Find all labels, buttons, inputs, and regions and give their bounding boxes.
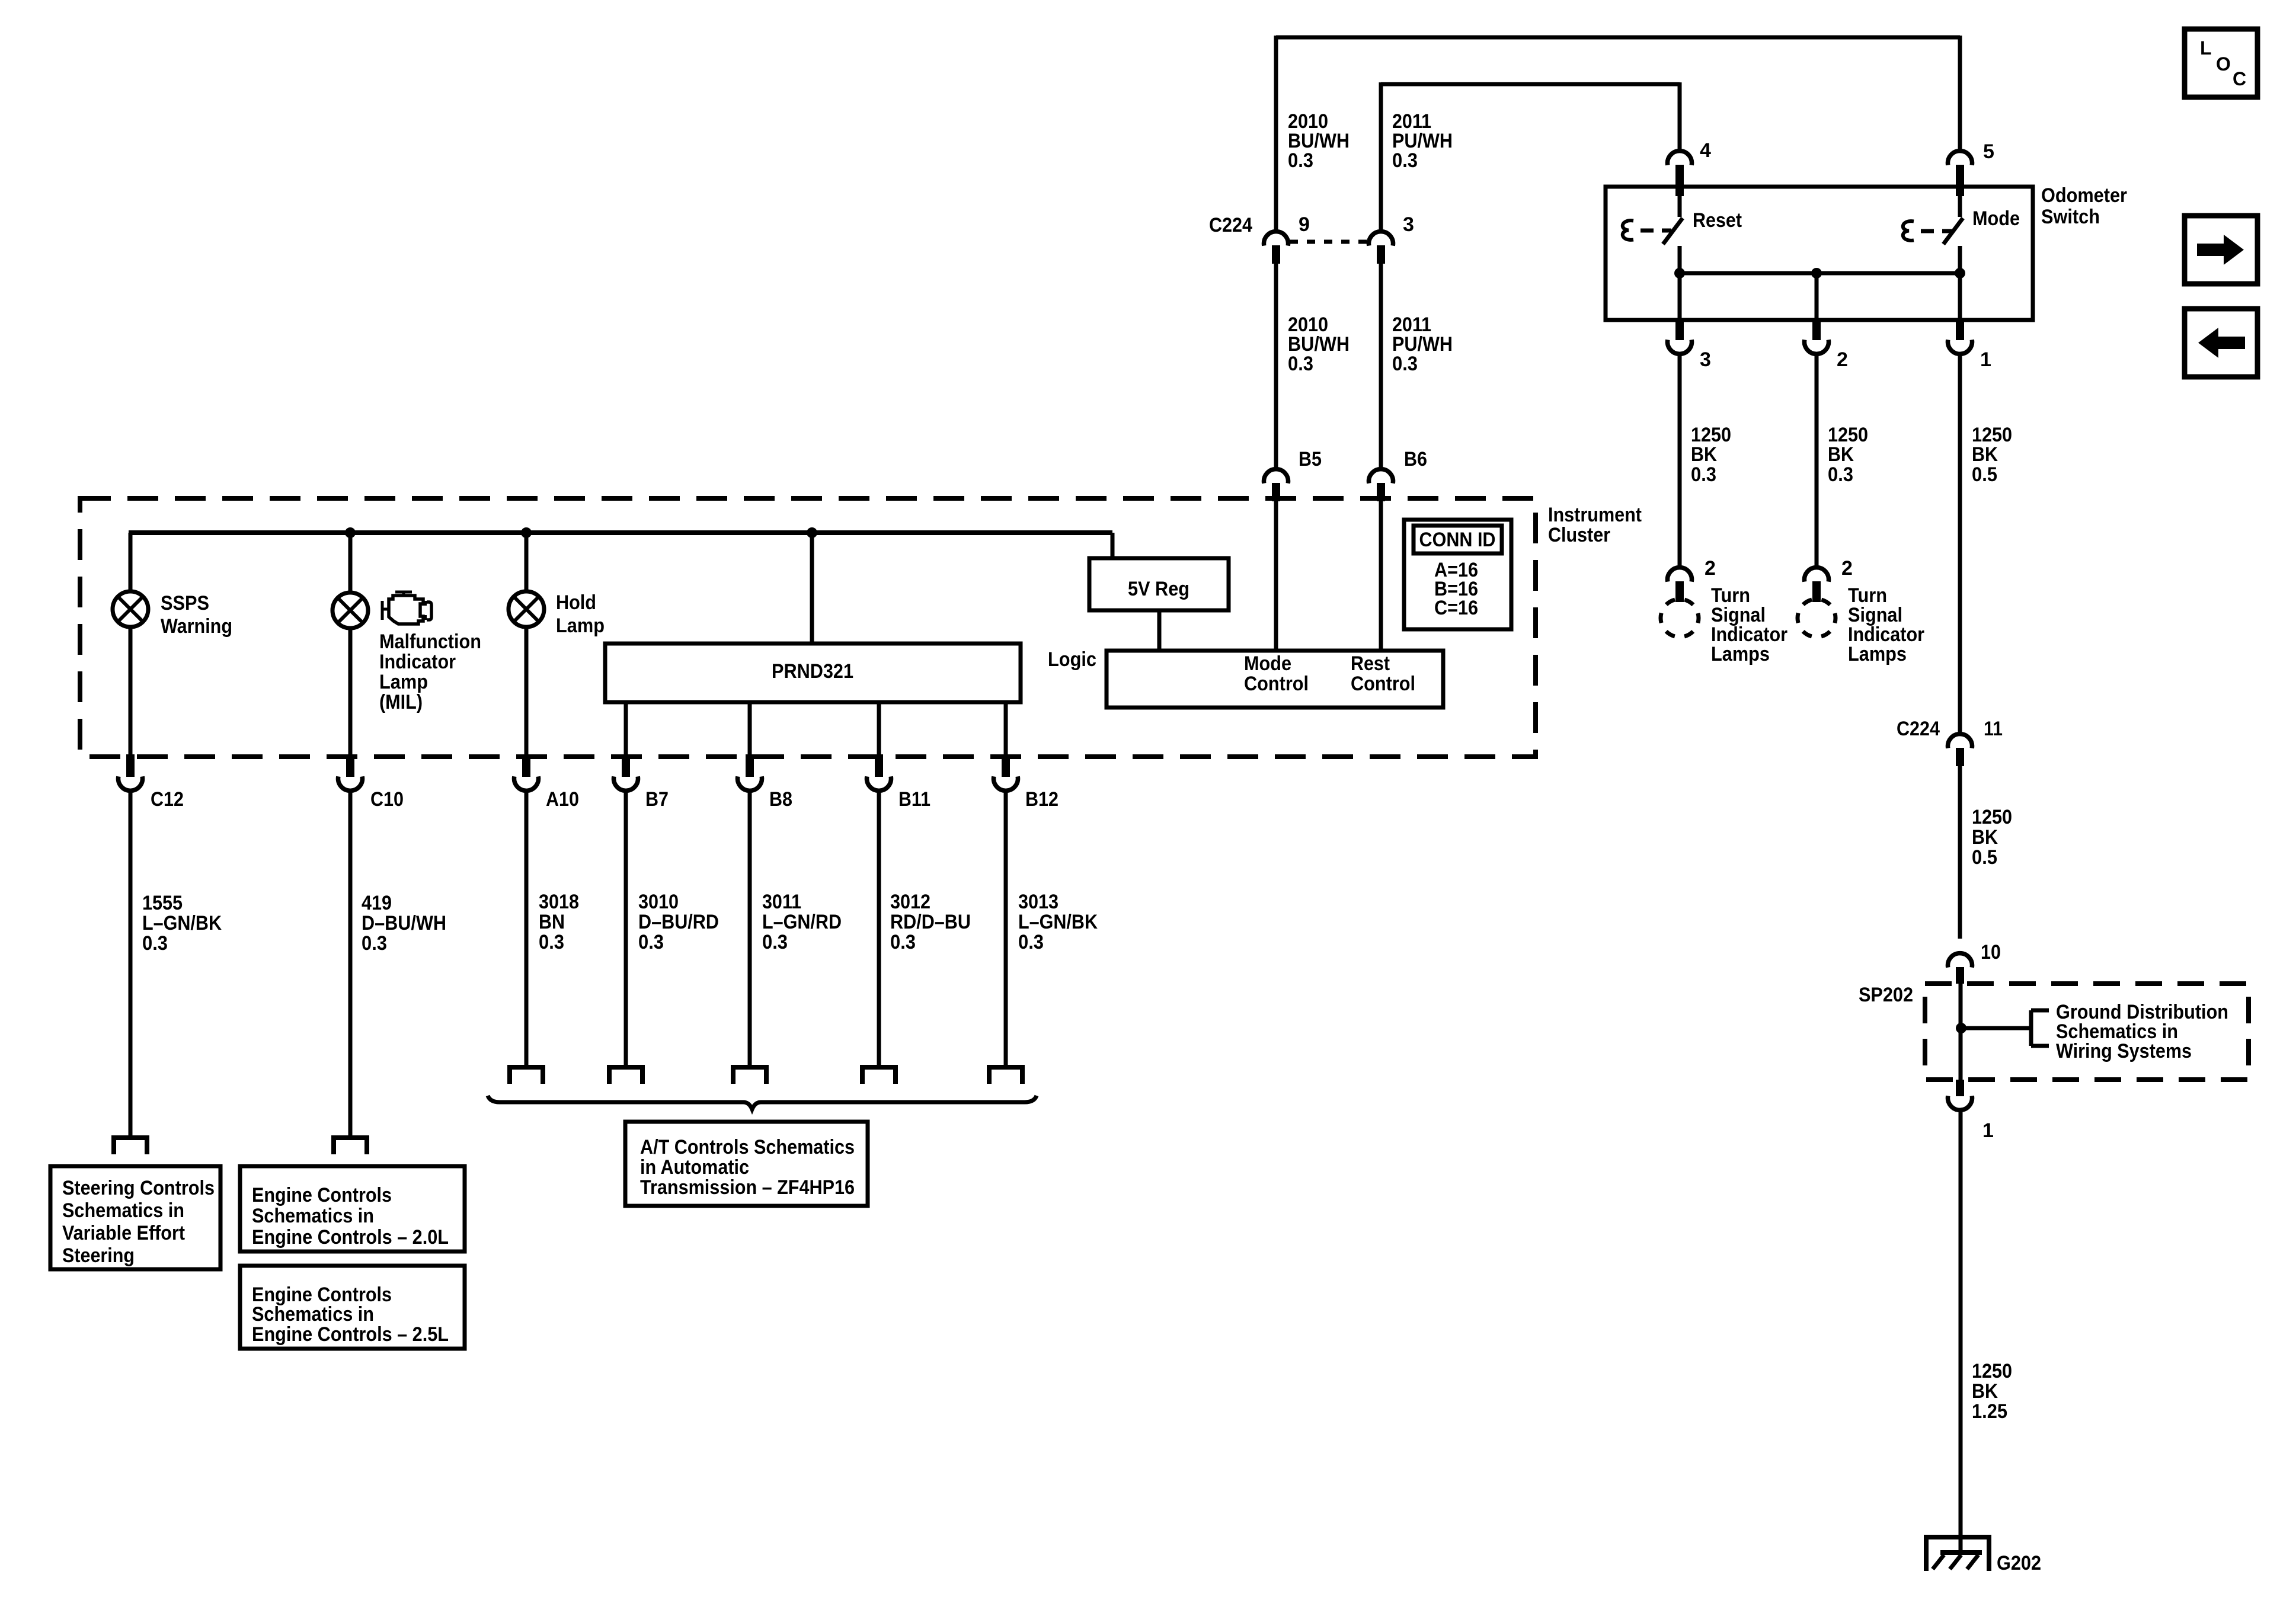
svg-text:Switch: Switch [2041,206,2100,228]
svg-text:SSPS: SSPS [161,592,209,614]
check engine icon [382,592,431,624]
label 3018 BN 0.3 [539,891,579,953]
wire 1250 BK 0.3 (middle) [1815,356,1819,566]
svg-text:0.3: 0.3 [638,931,664,953]
svg-text:Wiring Systems: Wiring Systems [2056,1040,2192,1062]
svg-text:BK: BK [1972,1380,1998,1403]
odometer pin 5 connector [1948,140,1994,196]
wire 2010 BU/WH top run [1276,36,1960,231]
label 419 D-BU/WH 0.3 [362,892,446,955]
svg-text:2: 2 [1841,557,1853,580]
svg-text:Reset: Reset [1693,209,1742,232]
odometer switch box [1606,187,2033,320]
svg-text:0.3: 0.3 [1288,149,1313,172]
svg-text:Schematics in: Schematics in [252,1303,374,1326]
connector C224 pin 3 [1369,213,1414,264]
SSPS warning lamp [113,591,148,627]
wire 3018 BN [525,792,529,1065]
CONN ID table box [1404,520,1511,629]
svg-text:D–BU/RD: D–BU/RD [638,911,719,933]
svg-text:Schematics in: Schematics in [252,1205,374,1227]
svg-text:Variable Effort: Variable Effort [62,1222,185,1244]
A/T controls schematic box [625,1122,868,1206]
svg-text:L: L [2200,37,2212,59]
label 3011 L-GN/RD 0.3 [762,891,842,953]
terminal B8 wire end [731,1067,769,1084]
wire to odometer pin 4 [1678,82,1682,151]
junction dot bus PRND [807,527,817,538]
svg-text:0.3: 0.3 [142,932,168,955]
next-page arrow icon [2185,216,2257,284]
cluster pin C10 connector [338,754,404,811]
svg-text:2: 2 [1837,348,1848,371]
CONN ID title [1419,529,1496,551]
mode switch contacts [1958,187,1962,320]
cluster pin A10 connector [514,754,579,811]
odometer pin 1 connector [1948,320,1991,371]
junction dot SP202 [1956,1023,1966,1033]
reset switch blade [1663,218,1683,244]
svg-text:SP202: SP202 [1859,984,1913,1006]
instrument cluster label [1548,504,1642,546]
terminal A10 wire end [507,1067,545,1084]
svg-text:RD/D–BU: RD/D–BU [890,911,971,933]
PRND321 label [772,660,853,683]
instrument cluster dashed box [80,498,1536,757]
mode switch blade [1943,218,1963,244]
cluster supply bus wire [129,533,1112,558]
wire 419 D-BU/WH [348,792,353,1136]
svg-text:Logic: Logic [1048,648,1096,671]
svg-text:Transmission – ZF4HP16: Transmission – ZF4HP16 [640,1176,855,1199]
svg-text:C10: C10 [370,788,404,811]
logic label [1048,648,1096,671]
svg-text:A10: A10 [546,788,579,811]
malfunction indicator lamp [332,593,368,628]
cluster pin B11 connector [867,754,931,811]
svg-text:10: 10 [1981,941,2001,964]
svg-text:1250: 1250 [1972,1360,2012,1382]
svg-text:3011: 3011 [762,891,801,913]
svg-text:Lamps: Lamps [1848,643,1907,665]
svg-text:5V Reg: 5V Reg [1128,578,1189,600]
svg-text:Engine Controls – 2.5L: Engine Controls – 2.5L [252,1323,449,1346]
engine controls 2.0L schematic box [240,1166,465,1251]
CONN ID values [1434,559,1478,619]
turn signal lamp left (dashed circle) [1661,599,1699,637]
svg-text:Hold: Hold [556,591,596,614]
ground G202 label [1997,1552,2041,1574]
wire 1250 BK 0.5 lower run [1958,766,1962,939]
5V regulator box [1089,558,1229,610]
svg-text:3010: 3010 [638,891,679,913]
junction dot bus hold [521,527,532,538]
svg-text:BK: BK [1972,826,1998,849]
previous-page arrow icon [2185,309,2257,377]
svg-text:C: C [2233,68,2246,89]
label 3010 D-BU/RD 0.3 [638,891,719,953]
splice SP202 pin 1 connector [1948,1080,1994,1142]
SSPS warning label [161,592,232,638]
mode control label [1244,652,1309,695]
wire 3011 L-GN/RD [748,792,752,1065]
svg-text:0.3: 0.3 [1392,149,1418,172]
splice SP202 pin 10 connector [1948,941,2001,984]
label 1250 BK 0.3 left [1691,424,1731,486]
svg-text:C=16: C=16 [1434,597,1478,619]
odometer pin 2 connector [1805,320,1848,371]
svg-text:C224: C224 [1897,718,1940,740]
wire PRND321 to B12 [1004,702,1008,755]
svg-text:0.3: 0.3 [1828,463,1853,486]
rest control label [1351,652,1415,695]
cluster pin B8 connector [738,754,793,811]
logic box [1107,651,1443,708]
label 3013 L-GN/BK 0.3 [1018,891,1098,953]
svg-text:BK: BK [1828,443,1854,466]
label 2010 BU/WH 0.3 (lower) [1288,313,1350,375]
cluster pin B7 connector [614,754,669,811]
svg-text:BN: BN [539,911,565,933]
svg-text:B12: B12 [1025,788,1059,811]
wire PRND321 to B8 [748,702,752,755]
wire 3013 L-GN/BK [1004,792,1008,1065]
svg-text:0.5: 0.5 [1972,846,1997,869]
svg-text:3: 3 [1700,348,1711,371]
turn signal connector 2 (right) [1805,557,1853,602]
malfunction indicator lamp label [379,630,481,713]
wire 2011 PU/WH top run [1381,82,1680,231]
wire PRND321 to B7 [624,702,628,755]
svg-text:1: 1 [1982,1119,1994,1142]
svg-text:Malfunction: Malfunction [379,630,481,653]
svg-text:L–GN/RD: L–GN/RD [762,911,842,933]
splice SP202 dashed box [1925,984,2249,1080]
cluster pin C12 connector [118,754,184,811]
svg-text:B6: B6 [1404,448,1427,470]
wire 2011 PU/WH lower run [1379,263,1383,468]
svg-text:0.3: 0.3 [539,931,564,953]
wire SSPS lamp to C12 [129,626,133,755]
svg-text:Mode: Mode [1244,652,1291,675]
wire 1250 BK 0.3 (left) [1678,356,1682,566]
turn signal lamps label left [1711,584,1787,665]
wire MIL lamp to C10 [348,628,353,755]
mode switch release symbol [1903,221,1914,241]
steering controls schematic box [50,1166,220,1269]
wire B6 to rest control [1379,501,1383,651]
ground G202 symbol [1924,1537,1991,1571]
reset switch dashed actuator link [1641,229,1671,233]
wire 5V reg to logic [1157,610,1162,651]
svg-text:1.25: 1.25 [1972,1400,2007,1423]
ground distribution note [2056,1001,2228,1062]
svg-text:Warning: Warning [161,615,232,638]
wire bus to MIL lamp [348,533,353,593]
svg-text:CONN ID: CONN ID [1419,529,1496,551]
svg-text:A/T Controls Schematics: A/T Controls Schematics [640,1136,855,1158]
svg-text:Lamp: Lamp [556,614,605,637]
svg-text:O: O [2216,53,2231,75]
svg-text:0.3: 0.3 [890,931,916,953]
svg-text:Steering Controls: Steering Controls [62,1177,215,1199]
svg-text:2: 2 [1705,557,1716,580]
junction dot middle common [1811,268,1822,279]
svg-text:0.3: 0.3 [1288,353,1313,375]
connector C224 pin 9 [1264,213,1310,264]
terminal B11 wire end [860,1067,898,1084]
wire 1250 BK 0.5 (right) [1958,356,1962,733]
svg-text:G202: G202 [1997,1552,2041,1574]
hold lamp label [556,591,605,637]
mode label [1972,207,2020,230]
svg-text:PRND321: PRND321 [772,660,853,683]
svg-text:Lamps: Lamps [1711,643,1770,665]
junction dot reset common [1674,268,1685,279]
svg-text:11: 11 [1984,718,2003,740]
svg-text:B5: B5 [1299,448,1322,470]
wire hold lamp to A10 [525,626,529,755]
wire 1250 BK 1.25 [1959,1112,1963,1553]
svg-text:Instrument: Instrument [1548,504,1642,526]
label 3012 RD/D-BU 0.3 [890,891,971,953]
svg-text:3: 3 [1403,213,1414,236]
PRND321 box [605,644,1021,702]
odometer pin 3 connector [1668,320,1711,371]
svg-text:0.3: 0.3 [1392,353,1418,375]
wire 2010 BU/WH lower run [1274,263,1278,468]
label 1250 BK 0.5 lower [1972,806,2012,869]
svg-text:D–BU/WH: D–BU/WH [362,912,446,934]
SP202 reference tap wire [1961,1026,2031,1030]
svg-text:Cluster: Cluster [1548,524,1610,546]
terminal C10 wire end [331,1138,369,1154]
svg-text:C224: C224 [1209,214,1252,236]
wire bus to PRND321 [810,533,814,644]
wire 3010 D-BU/RD [624,792,628,1065]
wire bus to hold lamp [525,533,529,592]
label 1555 L-GN/BK 0.3 [142,892,222,955]
C224 connector dashed link [1290,240,1367,244]
label 1250 BK 0.3 middle [1828,424,1868,486]
svg-text:BK: BK [1972,443,1998,466]
connector C224 label [1209,214,1252,236]
wire B5 to mode control [1274,501,1278,651]
wire to odometer pin 5 [1958,36,1962,151]
odometer switch common wire [1680,273,1960,320]
reset label [1693,209,1742,232]
wire 3012 RD/D-BU [877,792,881,1065]
wire bus to SSPS lamp [129,533,133,592]
svg-text:3013: 3013 [1018,891,1059,913]
terminal B7 wire end [607,1067,645,1084]
svg-text:B7: B7 [645,788,669,811]
connector C224 pin 11 [1897,718,2003,766]
svg-text:1250: 1250 [1972,806,2012,828]
svg-text:Engine Controls – 2.0L: Engine Controls – 2.0L [252,1226,449,1249]
cluster pin B5 connector [1264,448,1322,501]
svg-text:BK: BK [1691,443,1717,466]
svg-text:1: 1 [1980,348,1991,371]
odometer switch label [2041,184,2127,228]
svg-text:0.5: 0.5 [1972,463,1997,486]
SP202 label [1859,984,1913,1006]
5V regulator label [1128,578,1189,600]
svg-text:419: 419 [362,892,392,914]
svg-text:0.3: 0.3 [1691,463,1716,486]
junction dot bus C10 [345,527,356,538]
svg-text:Lamp: Lamp [379,671,428,693]
svg-text:0.3: 0.3 [762,931,788,953]
A/T controls brace [488,1096,1037,1109]
hold lamp [509,591,544,627]
svg-text:Steering: Steering [62,1244,135,1267]
label 1250 BK 0.5 right [1972,424,2012,486]
turn signal connector 2 (left) [1668,557,1716,602]
reset switch release symbol [1623,220,1633,240]
svg-text:(MIL): (MIL) [379,691,423,713]
SP202 reference bracket [2031,1010,2049,1046]
label 1250 BK 1.25 [1972,1360,2012,1423]
turn signal lamp right (dashed circle) [1798,599,1835,637]
svg-text:L–GN/BK: L–GN/BK [142,912,222,934]
svg-text:3012: 3012 [890,891,930,913]
svg-text:Indicator: Indicator [379,651,456,673]
svg-text:L–GN/BK: L–GN/BK [1018,911,1098,933]
wire PRND321 to B11 [877,702,881,755]
wire through SP202 [1959,984,1963,1080]
svg-text:4: 4 [1700,139,1711,162]
cluster pin B6 connector [1369,448,1428,501]
svg-text:1555: 1555 [142,892,183,914]
turn signal lamps label right [1848,584,1924,665]
svg-text:3018: 3018 [539,891,579,913]
cluster pin B12 connector [994,754,1059,811]
svg-text:Odometer: Odometer [2041,184,2127,207]
wire 1555 L-GN/BK [129,792,133,1136]
engine controls 2.5L schematic box [240,1266,465,1349]
svg-text:Schematics in: Schematics in [62,1199,184,1222]
label 2011 PU/WH 0.3 (lower) [1392,313,1453,375]
odometer pin 4 connector [1668,139,1712,196]
svg-text:Rest: Rest [1351,652,1390,675]
svg-text:Mode: Mode [1972,207,2020,230]
reset switch contacts [1678,187,1682,320]
svg-text:Control: Control [1244,673,1309,695]
svg-text:B11: B11 [898,788,930,811]
svg-text:0.3: 0.3 [1018,931,1044,953]
svg-text:5: 5 [1983,140,1994,163]
svg-text:0.3: 0.3 [362,932,387,955]
svg-text:in Automatic: in Automatic [640,1156,749,1179]
label 2010 BU/WH 0.3 (upper) [1288,110,1350,172]
mode switch dashed actuator link [1921,229,1952,233]
svg-text:Control: Control [1351,673,1415,695]
LOC reference box [2185,29,2257,97]
svg-text:9: 9 [1299,213,1310,236]
svg-text:C12: C12 [151,788,184,811]
terminal B12 wire end [987,1067,1025,1084]
terminal C12 wire end [111,1138,149,1154]
label 2011 PU/WH 0.3 (upper) [1392,110,1453,172]
junction dot mode common [1955,268,1965,279]
svg-text:B8: B8 [769,788,792,811]
svg-text:Engine Controls: Engine Controls [252,1184,392,1206]
